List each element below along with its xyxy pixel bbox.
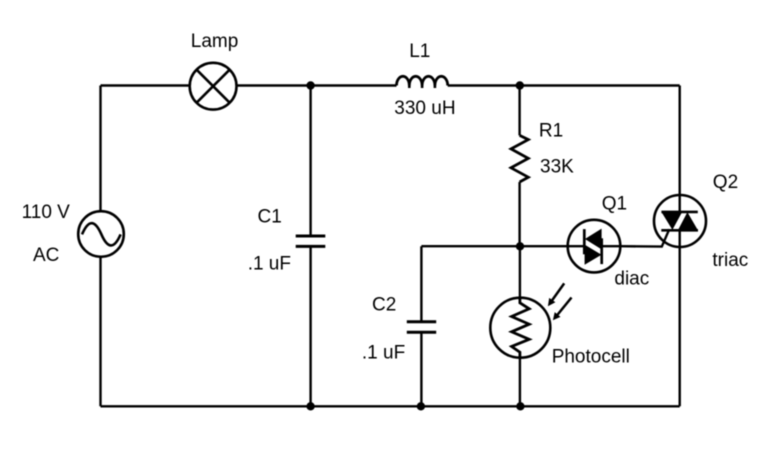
wire top rail middle segment — [237, 84, 397, 86]
wire diac right to triac gate — [620, 229, 669, 246]
wire bottom rail — [101, 405, 680, 407]
svg-text:Lamp: Lamp — [191, 31, 239, 52]
wire left rail lower — [99, 257, 101, 407]
diac Q1 — [568, 220, 621, 273]
wire R1 branch upper — [518, 86, 520, 136]
AC sine wave — [82, 223, 121, 245]
photocell — [490, 283, 571, 357]
photocell arrow 2 — [556, 298, 571, 317]
capacitor C1 — [296, 236, 326, 246]
svg-text:C1: C1 — [258, 207, 282, 228]
svg-text:R1: R1 — [539, 121, 563, 142]
AC source circle — [78, 211, 124, 257]
svg-text:diac: diac — [614, 268, 649, 289]
wire C1 branch upper — [309, 86, 311, 237]
svg-text:C2: C2 — [372, 294, 396, 315]
photocell arrow 1 — [551, 283, 564, 302]
svg-text:110 V: 110 V — [22, 202, 71, 223]
wire C2 branch vertical — [420, 246, 422, 322]
svg-text:triac: triac — [712, 250, 748, 271]
svg-text:AC: AC — [33, 245, 59, 266]
wire top rail right segment — [448, 84, 680, 86]
triac Q2 — [654, 195, 706, 247]
node junction bottom photocell — [516, 402, 524, 410]
svg-text:33K: 33K — [540, 156, 574, 177]
wire C1 branch lower — [309, 246, 311, 406]
wire top rail left segment — [101, 84, 190, 86]
wire inside diac right — [602, 245, 621, 247]
svg-text:Q2: Q2 — [713, 172, 738, 193]
svg-text:Photocell: Photocell — [552, 346, 630, 367]
lamp X — [197, 70, 230, 103]
node junction top C1 — [306, 81, 314, 89]
node junction gate — [516, 242, 524, 250]
svg-text:Q1: Q1 — [602, 194, 627, 215]
wire inside diac left — [568, 245, 585, 247]
wire photocell branch upper — [519, 246, 521, 298]
node junction bottom C1 — [306, 402, 314, 410]
svg-text:.1 uF: .1 uF — [248, 253, 291, 274]
node junction top R1 — [516, 81, 524, 89]
resistor R1 — [511, 135, 528, 182]
node junction bottom C2 — [417, 402, 425, 410]
svg-text:.1 uF: .1 uF — [362, 342, 405, 363]
wire R1 branch lower — [518, 182, 520, 246]
wire right rail lower — [679, 247, 681, 406]
svg-text:L1: L1 — [409, 41, 430, 62]
svg-text:330 uH: 330 uH — [394, 98, 455, 119]
wire gate horizontal left of diac — [421, 245, 567, 247]
wire right rail upper — [679, 86, 681, 196]
lamp circle — [190, 63, 237, 110]
wire left rail upper — [99, 86, 101, 212]
inductor L1 — [397, 76, 448, 85]
wire photocell branch lower — [519, 358, 521, 407]
capacitor C2 — [407, 322, 436, 332]
wire C2 lower — [420, 332, 422, 406]
